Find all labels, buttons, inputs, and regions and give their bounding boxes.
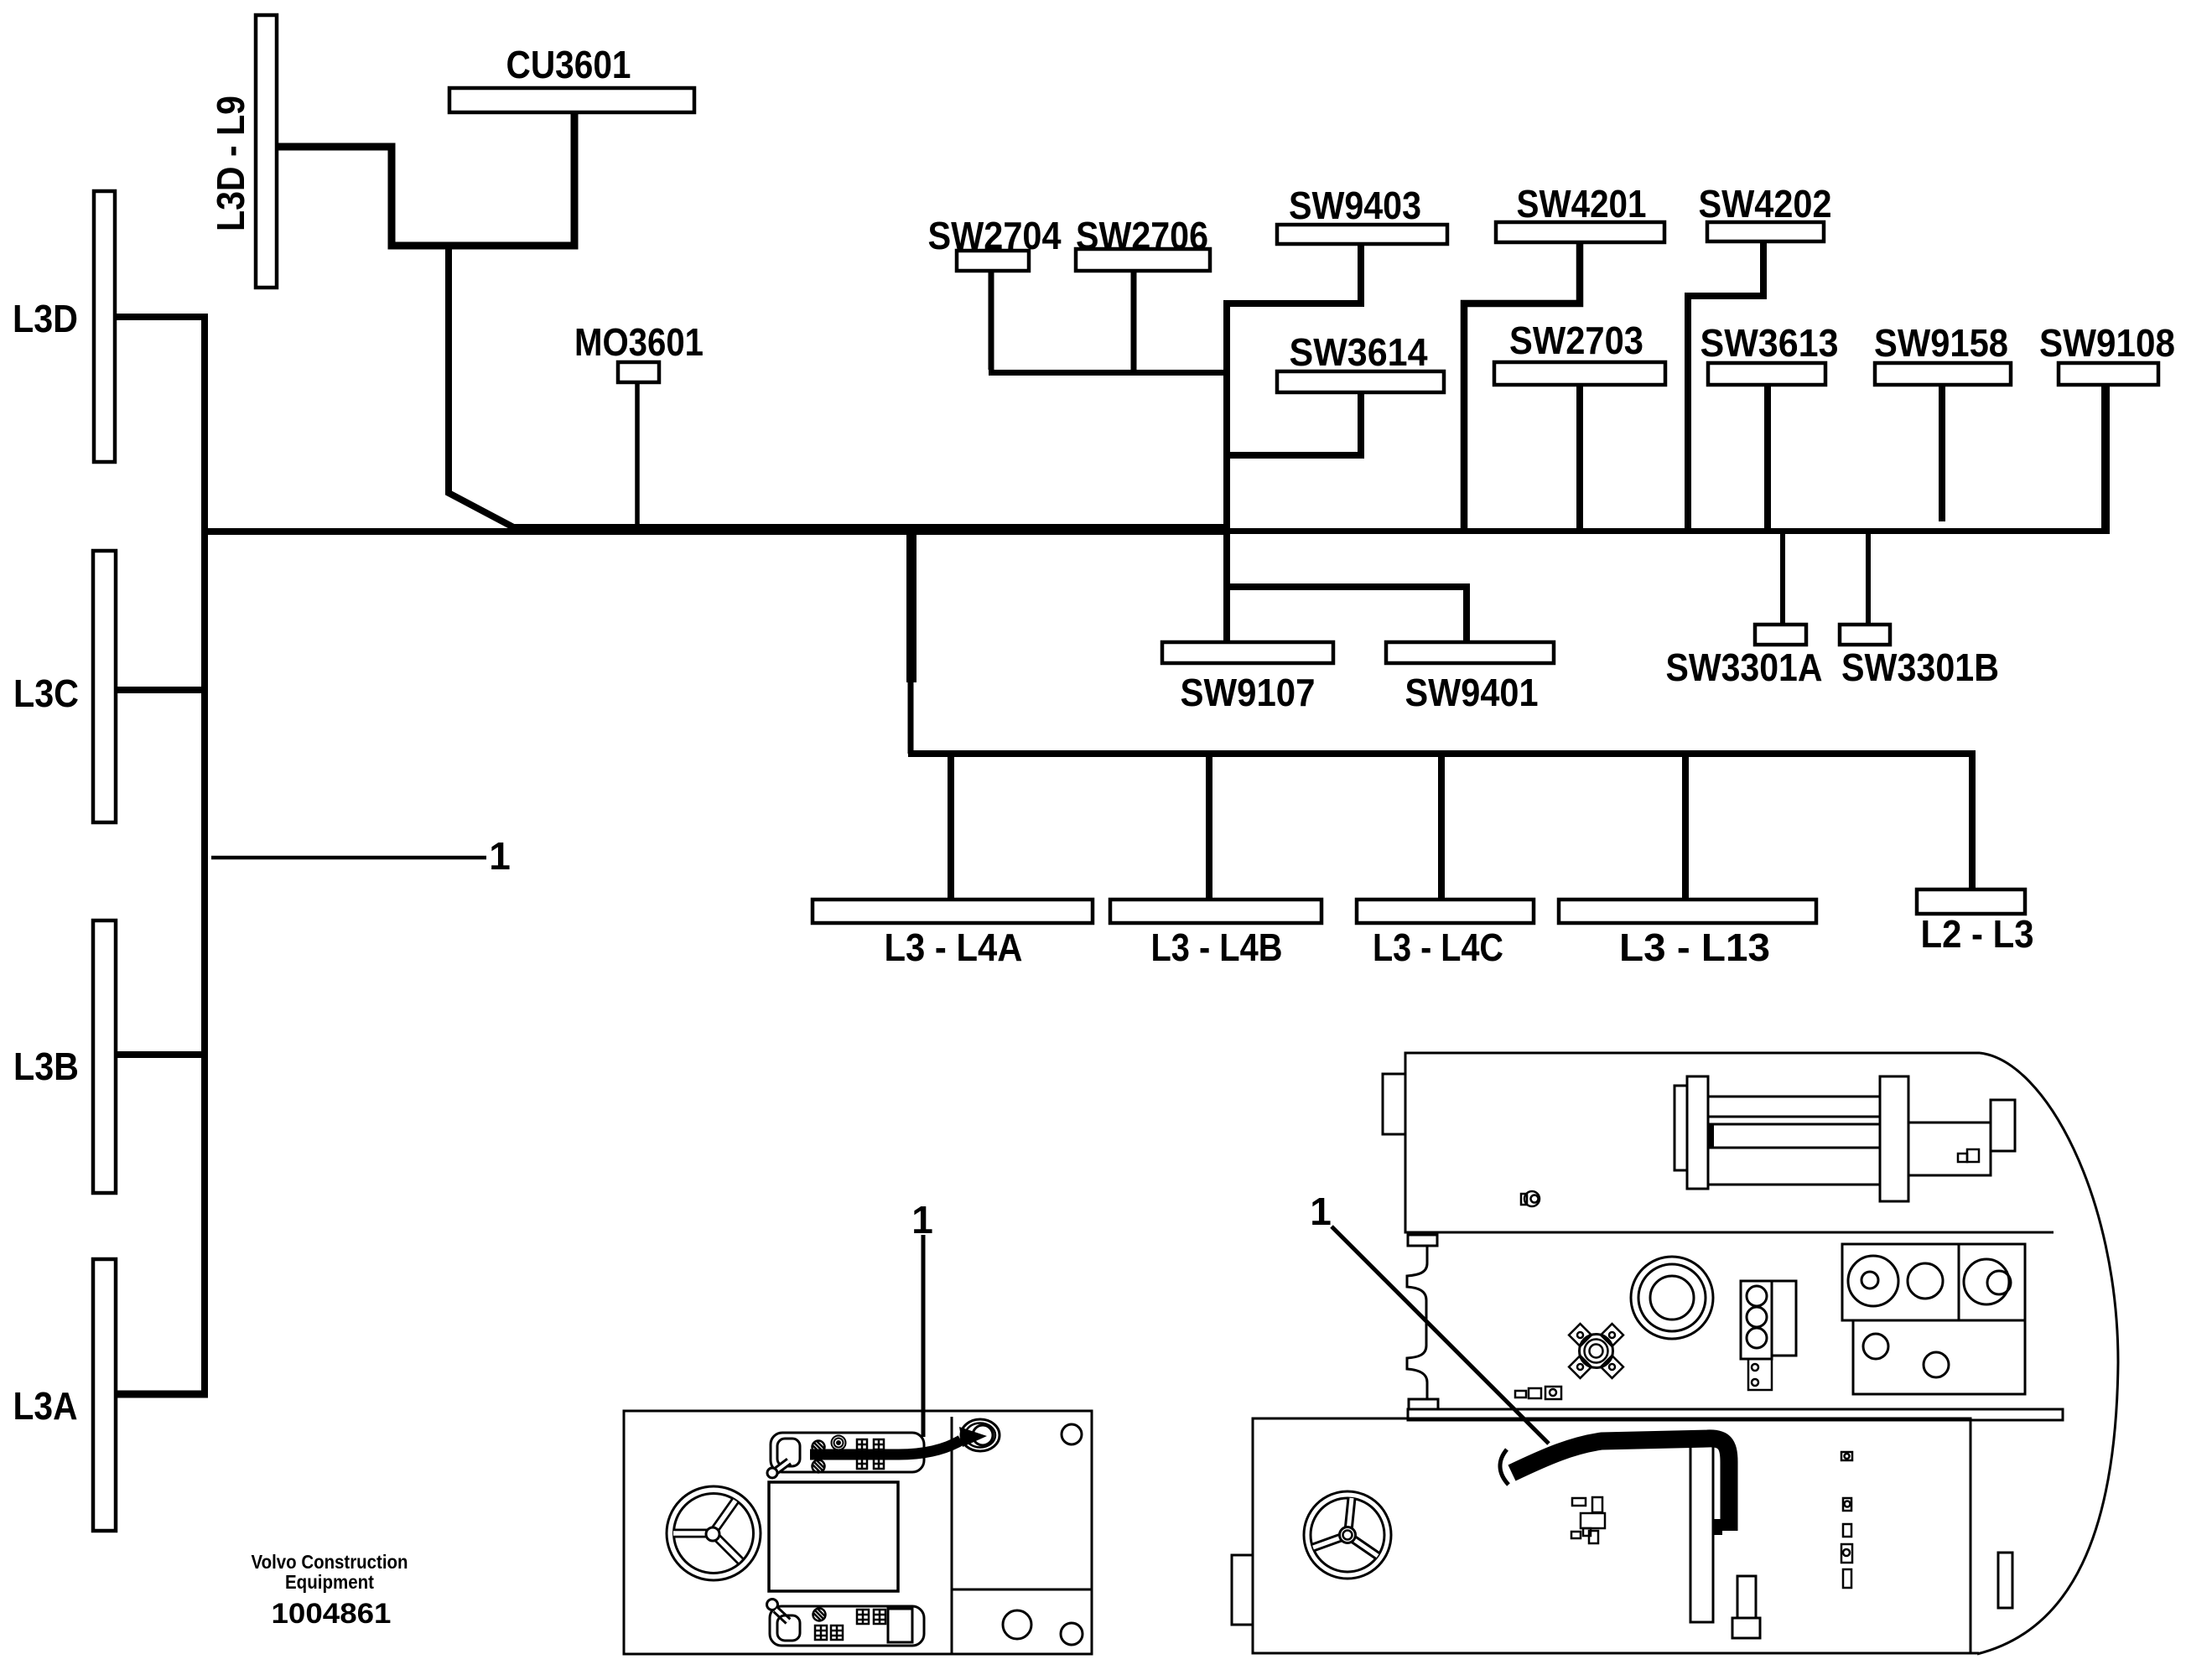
svg-text:L3 - L4C: L3 - L4C (1373, 926, 1503, 969)
wire central trunk thin lower (908, 679, 914, 754)
wire main bus right segment (1224, 528, 2106, 534)
svg-text:L3C: L3C (13, 671, 79, 715)
connector bar SW9108 (2059, 363, 2158, 385)
cylinder rails (1708, 1097, 1880, 1185)
wire L3D-L9 to CU3601 stub (277, 112, 574, 246)
connector bar SW9401 (1386, 642, 1554, 663)
connector bar L3D-L9 (256, 15, 277, 288)
bellows bottom tab (1409, 1399, 1438, 1409)
wire MO3601 stub (635, 382, 640, 529)
wire SW2704/SW2706 connector to riser (989, 370, 1227, 376)
wire SW2703 stub (1576, 385, 1583, 528)
wire L3B to trunk (116, 1051, 201, 1058)
right gauge panel lower (1853, 1320, 2025, 1394)
wire main bus thick middle segment (514, 524, 1230, 535)
leader line console (922, 1235, 926, 1437)
connector bar SW4202 (1707, 222, 1824, 241)
svg-text:L3D: L3D (13, 297, 78, 340)
svg-text:SW4202: SW4202 (1699, 182, 1832, 226)
connector bar SW9158 (1875, 363, 2011, 385)
svg-text:SW9401: SW9401 (1405, 671, 1539, 714)
machine nose arc (1977, 1053, 2118, 1654)
pedestal (1737, 1576, 1756, 1618)
connector bar L3C (93, 551, 116, 822)
console top-right hole (1062, 1424, 1082, 1444)
mid equipment cluster (1571, 1497, 1605, 1543)
svg-text:SW9403: SW9403 (1289, 184, 1421, 227)
connector box MO3601 (618, 362, 659, 382)
wire SW9158 stub (1939, 385, 1945, 521)
bellows left edge (1407, 1247, 1427, 1399)
connector bar SW9403 (1277, 225, 1447, 244)
bottom panel screw (813, 1609, 826, 1621)
svg-text:Volvo Construction: Volvo Construction (252, 1551, 408, 1573)
cylinder body right (1908, 1123, 1991, 1175)
wire second bus with right corner to L2-L3 (908, 754, 1972, 889)
cylinder rod black end (1708, 1124, 1714, 1148)
svg-text:CU3601: CU3601 (506, 43, 631, 86)
cylinder right tab (1991, 1100, 2015, 1151)
connector bar CU3601 (449, 88, 694, 112)
connector bar SW2706 (1076, 249, 1210, 271)
wire SW9108 stub (2101, 385, 2110, 534)
bottom panel lever knob (767, 1600, 778, 1610)
wire left trunk vertical (201, 314, 208, 1397)
connector box SW3301A (1755, 625, 1806, 645)
svg-text:SW3613: SW3613 (1701, 321, 1839, 365)
platform thin bar (1408, 1409, 2063, 1420)
console bottom-right hole A (1003, 1610, 1031, 1639)
bottom panel lever stick (776, 1610, 788, 1621)
top panel screw B (813, 1460, 825, 1473)
cylinder small step detail (1958, 1154, 1967, 1162)
lower cab right edge tab (1998, 1553, 2012, 1608)
wire CU3601 branch down to main bus (diagonal) (449, 242, 520, 531)
signal block (1741, 1281, 1796, 1390)
svg-text:MO3601: MO3601 (574, 320, 704, 364)
leader line for item 1 (left) (211, 856, 486, 860)
steering wheel (console) (667, 1486, 761, 1580)
console right shelf line (952, 1589, 1092, 1591)
bottom panel grid switches upper (857, 1610, 885, 1624)
wire SW3614 stub and jog (1224, 392, 1361, 455)
wire L3-L13 stub (1682, 757, 1689, 900)
connector bar L3A (93, 1259, 116, 1531)
right column tiny parts (1841, 1452, 1852, 1588)
cable bottom tab (1712, 1519, 1722, 1535)
cable left hook (1500, 1449, 1508, 1485)
connector bar SW9107 (1162, 642, 1333, 663)
wire main bus left segment (205, 528, 518, 535)
connector bar L2-L3 (1917, 889, 2025, 914)
top panel lever base (777, 1439, 800, 1466)
deck bolt detail (1521, 1191, 1540, 1206)
svg-text:L3B: L3B (13, 1045, 79, 1088)
machine top deck left tab (1383, 1074, 1405, 1134)
svg-text:L2 - L3: L2 - L3 (1921, 912, 2034, 956)
wire L3A to trunk (112, 1391, 208, 1398)
wire SW4202 stub jog and riser (1688, 241, 1763, 528)
narrow console box (1690, 1437, 1713, 1622)
svg-text:SW3301A: SW3301A (1666, 646, 1823, 689)
svg-text:L3A: L3A (13, 1384, 78, 1428)
console divider (951, 1417, 953, 1654)
cylinder right flange (1880, 1076, 1908, 1201)
wire L3-L4C stub (1438, 757, 1445, 900)
connector bar L3-L13 (1559, 900, 1816, 923)
wire L3-L4A stub (948, 757, 954, 900)
deck bottom small tab (1408, 1235, 1437, 1246)
top panel lever stick (776, 1461, 789, 1471)
svg-text:1: 1 (489, 834, 511, 878)
wire L3D to left trunk (115, 314, 201, 320)
top panel grid switches (857, 1439, 884, 1469)
wire SW9401 branch (1223, 587, 1467, 642)
console connector circle (961, 1419, 1000, 1451)
top panel concentric knob (832, 1436, 846, 1450)
bottom panel blank display (888, 1609, 912, 1642)
svg-text:SW9107: SW9107 (1181, 671, 1316, 714)
bottom panel lever base (777, 1615, 800, 1641)
connector box SW3301B (1840, 625, 1890, 645)
svg-text:1004861: 1004861 (272, 1598, 392, 1630)
svg-text:SW3614: SW3614 (1290, 330, 1428, 374)
bottom control panel (770, 1606, 924, 1646)
machine harness cable (item 1) (1512, 1439, 1729, 1531)
lower cab left tab (1232, 1555, 1253, 1625)
top panel lever knob (767, 1468, 777, 1478)
console bottom-right hole B (1061, 1623, 1083, 1645)
console display screen (769, 1482, 898, 1591)
connector bar L3D (94, 191, 115, 462)
wire central riser SW9403 down to SW9107 (1223, 300, 1230, 642)
top panel screw A (813, 1441, 825, 1454)
connector bar L3-L4C (1357, 900, 1534, 923)
wire SW2704 stub (989, 271, 994, 370)
wire SW3301A stub (1780, 534, 1785, 625)
four-bolt flange (1569, 1324, 1623, 1378)
console outer panel (624, 1411, 1092, 1654)
connector bar L3-L4A (813, 900, 1093, 923)
wire SW3301B stub (1866, 534, 1871, 625)
wire SW9403 stub and jog (1224, 244, 1361, 303)
svg-text:1: 1 (1310, 1190, 1332, 1233)
svg-text:L3 - L13: L3 - L13 (1619, 926, 1770, 969)
connector bar SW4201 (1496, 222, 1664, 242)
svg-text:L3 - L4A: L3 - L4A (885, 926, 1023, 969)
big concentric rings (1631, 1257, 1713, 1339)
connector bar SW3614 (1277, 371, 1444, 392)
wire central trunk thick (906, 535, 916, 682)
wire SW2706 stub (1131, 271, 1137, 370)
svg-text:L3 - L4B: L3 - L4B (1151, 926, 1283, 969)
wire L3-L4B stub (1206, 757, 1212, 900)
machine top deck rectangle (1405, 1053, 2054, 1232)
svg-text:Equipment: Equipment (285, 1571, 374, 1593)
connector bar SW3613 (1708, 363, 1825, 385)
machine lower cab rectangle (1253, 1418, 1971, 1653)
bottom panel grid switches lower (815, 1626, 843, 1640)
right gauge panel upper (1842, 1244, 2025, 1320)
connector bar L3-L4B (1110, 900, 1321, 923)
svg-text:SW2706: SW2706 (1076, 214, 1208, 257)
connector bar SW2703 (1494, 362, 1665, 385)
top control panel (771, 1433, 924, 1472)
svg-text:SW2704: SW2704 (928, 214, 1062, 257)
svg-text:SW9158: SW9158 (1874, 321, 2008, 365)
steering wheel (machine) (1304, 1491, 1391, 1579)
cylinder left plate (1675, 1086, 1687, 1170)
svg-text:SW9108: SW9108 (2039, 321, 2175, 365)
svg-text:SW4201: SW4201 (1517, 182, 1647, 226)
cylinder left flange (1687, 1076, 1708, 1189)
wire SW3613 stub (1764, 385, 1771, 528)
connector bar SW2704 (957, 251, 1029, 271)
wire SW4201 stub jog and riser (1464, 243, 1580, 528)
wire L3C to trunk (116, 687, 201, 693)
leader line machine (1332, 1226, 1549, 1444)
console harness cable (item 1) (810, 1440, 961, 1454)
svg-text:SW3301B: SW3301B (1841, 646, 1999, 689)
connector bar L3B (93, 920, 116, 1193)
tiny connectors mid band (1515, 1387, 1561, 1399)
svg-text:SW2703: SW2703 (1509, 319, 1643, 362)
svg-text:L3D - L9: L3D - L9 (209, 96, 252, 231)
